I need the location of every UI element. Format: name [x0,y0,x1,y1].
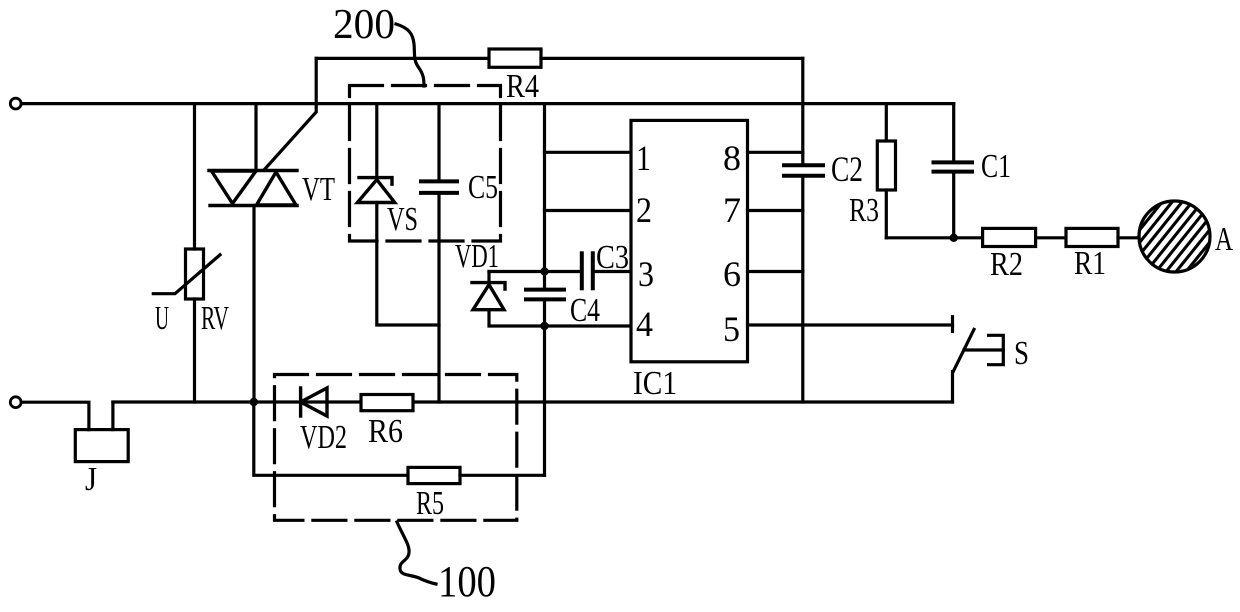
wire VD1 top lead [487,272,490,283]
load A hatched circle [1060,180,1240,292]
wire VS bottom [377,203,439,326]
wire pin8 [748,151,803,154]
wire gate to R4 [316,57,489,60]
wire RV branch top [193,104,196,249]
wire left bus lower [543,299,546,475]
resistor R6 [361,395,413,411]
svg-text:R4: R4 [506,68,539,105]
svg-text:R5: R5 [416,485,444,522]
wire triac cathode to bottom rail [252,206,255,403]
svg-text:6: 6 [723,254,741,294]
wire C3 right to pin3 [593,270,631,273]
svg-text:C4: C4 [570,292,600,329]
svg-text:7: 7 [723,190,741,230]
IC1 box [631,120,748,361]
svg-text:C2: C2 [831,149,863,189]
resistor R2 [983,228,1036,246]
zener diode VD1 [472,283,505,310]
svg-text:VS: VS [387,201,418,238]
wire R4 to right vertical [541,57,803,60]
wire C1 bottom [952,172,955,238]
junction dot triac/bottom rail [250,398,258,406]
capacitor C1 [934,162,973,171]
svg-text:2: 2 [636,190,652,230]
junction dot bus/pin4 [540,322,548,330]
svg-text:200: 200 [333,2,395,48]
wire pin7 [748,209,803,212]
svg-text:1: 1 [636,138,651,178]
svg-text:S: S [1014,335,1029,372]
wire triac gate [264,58,316,170]
wire pin3 / C3 left [489,270,582,273]
svg-text:J: J [85,461,97,498]
terminal bottom-left [10,397,21,408]
wire top rail [21,102,953,105]
wire pin5 to switch [748,323,953,326]
relay coil J [75,430,128,462]
triac VT [209,171,297,206]
leader from 200 [396,24,424,86]
svg-text:R6: R6 [368,413,403,450]
switch S [953,317,1004,402]
svg-text:R2: R2 [990,246,1023,283]
capacitor C4 [526,290,564,300]
svg-text:R3: R3 [849,192,879,229]
wire R3 bottom [885,190,888,238]
svg-text:C5: C5 [468,169,498,206]
terminal top-left [10,98,21,109]
svg-text:R1: R1 [1074,245,1106,282]
resistor R4 [489,49,541,67]
capacitor C2 [784,165,823,175]
svg-text:U: U [155,300,169,337]
dashed box 200 [350,86,501,242]
svg-text:3: 3 [638,254,654,294]
leader to 100 [397,522,436,584]
wire R5 branch [254,402,408,475]
wire R5 to bus [460,474,545,477]
wire RV to bottom rail [193,299,196,402]
svg-text:100: 100 [438,557,496,606]
wire C1 top [952,104,955,163]
svg-text:8: 8 [723,138,741,178]
wire to relay J [21,402,89,429]
svg-text:VD2: VD2 [300,419,347,456]
wire R3 to R2 [886,236,982,239]
wire R2 to R1 [1036,236,1066,239]
svg-text:5: 5 [723,309,740,349]
svg-text:C1: C1 [981,148,1011,185]
wire pin4 [545,324,632,327]
wire VD1 bottom lead [489,310,545,326]
wire left bus upper [543,104,546,290]
wire pin2 [545,209,632,212]
capacitor C5 [421,181,457,193]
diode VD2 [301,388,327,416]
svg-text:A: A [1215,221,1233,258]
wire right vertical lower [801,176,804,402]
zener diode VS [357,178,394,203]
wire R3 top [885,104,888,141]
svg-text:4: 4 [636,304,653,344]
wire C5 top [437,104,440,182]
resistor R1 [1066,228,1118,246]
wire R1 to load [1118,236,1139,239]
wire bottom rail [113,400,953,403]
dashed box 100 [275,375,517,521]
wire triac anode [254,104,257,171]
wire zener VS top [375,104,378,178]
wire pin6 [748,270,803,273]
wire C5 to bottom rail [437,193,440,402]
junction dot bus/pin3 [540,267,548,275]
wire pin1 [545,151,632,154]
svg-text:C3: C3 [596,239,629,276]
resistor R5 [408,467,460,483]
capacitor C3 [582,253,593,288]
svg-text:IC1: IC1 [633,365,677,402]
wire right vertical upper (to C2) [801,58,804,165]
svg-text:VT: VT [302,171,335,208]
resistor R3 [877,141,895,190]
wire J to bottom rail [111,402,114,429]
svg-text:RV: RV [201,300,229,337]
svg-text:VD1: VD1 [455,238,499,275]
junction dot C1/wire [950,234,958,242]
varistor RV [153,249,220,299]
